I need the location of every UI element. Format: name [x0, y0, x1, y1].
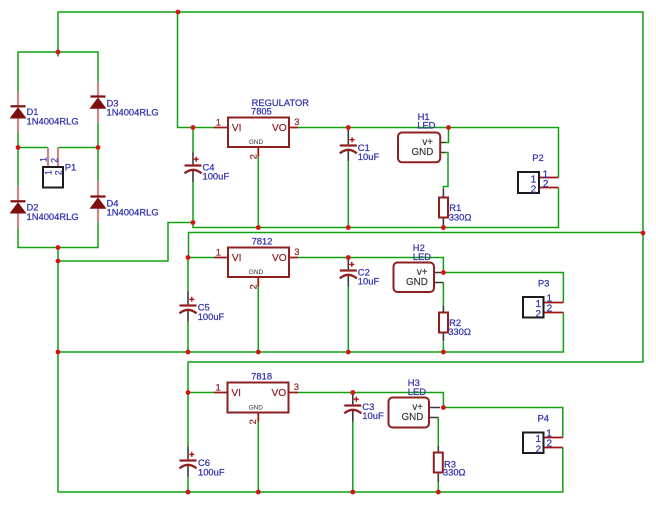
svg-text:100uF: 100uF: [203, 171, 230, 182]
wire regulator1 ground: [257, 157, 259, 228]
svg-text:VI: VI: [232, 123, 242, 134]
wire positive bus top: [58, 12, 643, 233]
svg-text:1: 1: [43, 170, 53, 175]
svg-text:1: 1: [216, 381, 221, 392]
svg-text:GND: GND: [249, 404, 264, 411]
svg-text:VO: VO: [272, 123, 287, 134]
svg-text:2: 2: [247, 284, 258, 289]
wire C6 taps: [187, 393, 189, 493]
svg-text:10uF: 10uF: [362, 410, 384, 421]
capacitor C3: [344, 393, 384, 422]
svg-text:100uF: 100uF: [198, 466, 225, 477]
junction at 178,12: [176, 10, 181, 15]
voltage regulator 7818: [214, 371, 299, 425]
svg-text:VO: VO: [271, 388, 286, 399]
svg-text:2: 2: [546, 439, 552, 450]
junction at 348.3,352: [346, 350, 351, 355]
junction at 352.8,392.5: [350, 390, 355, 395]
svg-text:2: 2: [49, 158, 59, 163]
svg-text:1N4004RLG: 1N4004RLG: [107, 107, 159, 118]
junction at 258.3,227.5: [256, 225, 261, 230]
svg-text:3: 3: [294, 381, 299, 392]
svg-text:7818: 7818: [251, 371, 272, 382]
junction at 188,492: [186, 490, 191, 495]
svg-text:10uF: 10uF: [358, 151, 380, 162]
svg-text:7805: 7805: [251, 106, 272, 117]
wire negative main and bottom rail: [58, 261, 563, 492]
wire row2 output rail: [298, 258, 443, 273]
svg-text:P2: P2: [532, 152, 543, 163]
LED H2: [394, 242, 444, 292]
junction at 438.3,492: [436, 490, 441, 495]
svg-text:1: 1: [216, 116, 221, 127]
svg-text:2: 2: [535, 444, 541, 455]
svg-text:GND: GND: [249, 269, 264, 276]
junction at 443.4,352: [441, 350, 446, 355]
wire negative to row1 ground: [58, 223, 193, 262]
resistor R2: [439, 306, 471, 342]
svg-text:P4: P4: [538, 413, 549, 424]
wire row1 output rail: [298, 128, 559, 178]
diode D4: [91, 181, 159, 222]
wire bridge mid rail left: [18, 132, 48, 186]
junction at 443.4,272.5: [441, 270, 446, 275]
svg-text:LED: LED: [417, 120, 435, 131]
svg-text:1N4004RLG: 1N4004RLG: [107, 207, 159, 218]
svg-text:GND: GND: [406, 277, 428, 288]
svg-text:2: 2: [547, 304, 553, 315]
junction at 58,52: [56, 50, 61, 55]
svg-text:LED: LED: [413, 251, 431, 262]
diode D3: [91, 82, 159, 123]
wire regulator3 ground: [257, 422, 259, 493]
voltage regulator 7805: [214, 97, 309, 159]
LED H3: [389, 377, 441, 427]
svg-text:1: 1: [39, 157, 49, 162]
wire C1 bottom: [347, 161, 349, 228]
capacitor C1: [340, 128, 380, 162]
svg-text:VI: VI: [232, 253, 242, 264]
svg-text:1N4004RLG: 1N4004RLG: [27, 116, 79, 127]
resistor R1: [439, 189, 471, 228]
connector P3: [523, 278, 563, 321]
svg-text:1: 1: [216, 246, 221, 257]
wire bridge mid rail right: [58, 123, 98, 182]
wire row2 feed: [189, 233, 644, 258]
junction at 18,147.5: [16, 145, 21, 150]
resistor R3: [434, 446, 466, 482]
junction at 188,392.5: [186, 390, 191, 395]
junction at 352.8,492: [350, 490, 355, 495]
svg-text:10uF: 10uF: [358, 276, 380, 287]
diode D1: [11, 92, 79, 132]
junction at 348.3,227.5: [346, 225, 351, 230]
svg-text:2: 2: [247, 419, 258, 424]
svg-text:3: 3: [294, 246, 299, 257]
wire row1 ground rail: [193, 188, 559, 228]
svg-text:LED: LED: [408, 386, 426, 397]
junction at 58,352: [56, 350, 61, 355]
wire H3 gnd to R3: [437, 418, 439, 493]
wire bridge top rail: [18, 52, 98, 92]
wire H2 gnd to R2: [442, 283, 444, 353]
junction at 348.3,127.5: [346, 125, 351, 130]
svg-text:GND: GND: [402, 412, 424, 423]
junction at 443.4,407.5: [441, 405, 446, 410]
connector P2: [518, 152, 559, 195]
svg-text:330Ω: 330Ω: [443, 467, 466, 478]
wire row3 output rail: [298, 393, 443, 408]
wire regulator2 ground: [257, 287, 259, 353]
svg-text:GND: GND: [412, 147, 434, 158]
junction at 643,233: [641, 231, 646, 236]
junction at 193,127.5: [191, 125, 196, 130]
capacitor C4: [185, 153, 230, 183]
junction at 58,261: [56, 259, 61, 264]
capacitor C2: [340, 258, 380, 287]
junction at 193,222.5: [191, 220, 196, 225]
wire negative drop: [57, 248, 59, 262]
junction at 443.4,227.5: [441, 225, 446, 230]
junction at 188,257.5: [186, 255, 191, 260]
wire C3 bottom: [352, 422, 354, 493]
connector P1: [39, 148, 77, 188]
junction at 258.3,492: [256, 490, 261, 495]
svg-text:2: 2: [53, 170, 63, 175]
wire C5 taps: [187, 258, 189, 353]
wire bridge bottom rail: [18, 222, 98, 248]
junction at 188,352: [186, 350, 191, 355]
svg-text:2: 2: [531, 185, 537, 196]
wire row2 ground rail: [58, 313, 563, 353]
svg-text:330Ω: 330Ω: [448, 326, 471, 337]
svg-text:P3: P3: [538, 278, 549, 289]
wire row2 input: [188, 257, 214, 259]
svg-text:VO: VO: [272, 253, 287, 264]
svg-text:7812: 7812: [252, 236, 273, 247]
svg-text:2: 2: [535, 309, 541, 320]
svg-text:3: 3: [294, 116, 299, 127]
connector P4: [523, 413, 563, 456]
capacitor C6: [180, 447, 225, 478]
svg-text:GND: GND: [249, 139, 264, 146]
svg-text:1N4004RLG: 1N4004RLG: [27, 211, 79, 222]
svg-text:100uF: 100uF: [198, 311, 225, 322]
voltage regulator 7812: [214, 236, 300, 290]
wire H1 v+ riser: [446, 128, 449, 143]
svg-text:P1: P1: [65, 161, 76, 172]
capacitor C5: [180, 292, 225, 323]
wire right vertical to row3 feed: [188, 233, 643, 393]
wire H2 v+ to P3: [443, 273, 563, 303]
junction at 348.3,257.5: [346, 255, 351, 260]
wire row1 feed: [178, 12, 215, 128]
diode D2: [11, 186, 79, 228]
wire row3 input: [188, 392, 214, 394]
LED H1: [398, 111, 446, 162]
wire C4 taps: [192, 128, 194, 223]
wire H3 v+ to P4: [443, 408, 562, 438]
junction at 448.5,127.5: [446, 125, 451, 130]
junction at 98,147.5: [96, 145, 101, 150]
svg-text:2: 2: [247, 154, 258, 159]
junction at 58,247.5: [56, 245, 61, 250]
wire H1 gnd to R1: [443, 153, 448, 190]
svg-text:330Ω: 330Ω: [449, 211, 472, 222]
wire C2 bottom: [347, 287, 349, 353]
svg-text:2: 2: [543, 179, 549, 190]
junction at 258.3,352: [256, 350, 261, 355]
svg-text:VI: VI: [231, 388, 241, 399]
